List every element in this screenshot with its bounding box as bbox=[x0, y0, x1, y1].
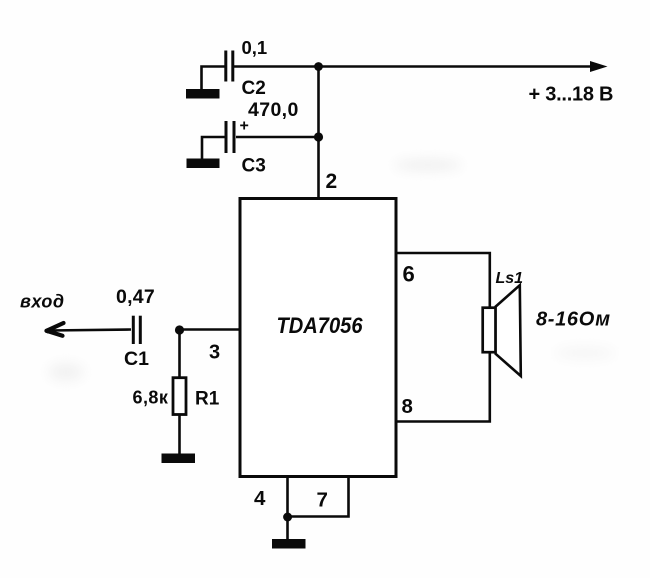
svg-text:+ 3...18 В: + 3...18 В bbox=[529, 84, 614, 106]
svg-text:C1: C1 bbox=[124, 348, 149, 370]
svg-text:3: 3 bbox=[209, 342, 220, 364]
svg-text:6: 6 bbox=[403, 262, 415, 287]
svg-text:+: + bbox=[240, 118, 249, 135]
svg-text:6,8к: 6,8к bbox=[133, 388, 169, 408]
svg-text:8-16Ом: 8-16Ом bbox=[536, 309, 610, 331]
svg-text:R1: R1 bbox=[195, 389, 220, 410]
svg-text:вход: вход bbox=[20, 292, 65, 312]
svg-text:Ls1: Ls1 bbox=[496, 270, 524, 287]
svg-text:C3: C3 bbox=[242, 156, 266, 177]
svg-text:4: 4 bbox=[254, 487, 266, 510]
svg-text:0,1: 0,1 bbox=[242, 37, 268, 58]
svg-text:TDA7056: TDA7056 bbox=[277, 313, 364, 338]
svg-text:0,47: 0,47 bbox=[116, 286, 155, 308]
svg-text:2: 2 bbox=[326, 170, 338, 193]
svg-text:7: 7 bbox=[317, 489, 328, 512]
svg-text:470,0: 470,0 bbox=[248, 99, 298, 121]
svg-text:C2: C2 bbox=[242, 78, 266, 99]
svg-text:8: 8 bbox=[402, 395, 413, 418]
